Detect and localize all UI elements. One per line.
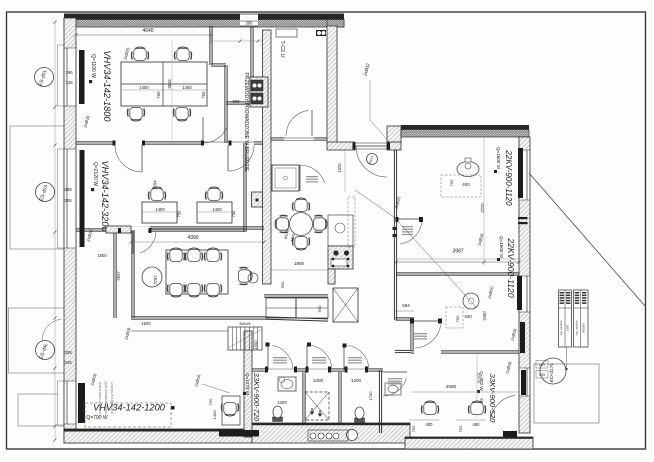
svg-text:T-C2.U: T-C2.U — [279, 40, 285, 57]
svg-text:800: 800 — [233, 99, 241, 104]
svg-text:D85: D85 — [539, 373, 545, 377]
svg-text:1000: 1000 — [313, 378, 324, 383]
svg-text:750: 750 — [201, 91, 206, 99]
svg-text:4580: 4580 — [446, 384, 457, 390]
svg-text:750: 750 — [177, 210, 182, 218]
svg-text:Q=1190 W: Q=1190 W — [90, 54, 96, 78]
svg-text:1500: 1500 — [141, 321, 151, 326]
svg-text:VHV34-142-3200: VHV34-142-3200 — [100, 161, 110, 233]
svg-text:1985: 1985 — [566, 324, 570, 331]
svg-text:3615: 3615 — [167, 79, 172, 89]
svg-text:400: 400 — [473, 422, 481, 427]
svg-text:584: 584 — [402, 303, 410, 308]
svg-text:400: 400 — [462, 182, 470, 187]
svg-text:2797: 2797 — [153, 275, 158, 285]
svg-text:podejscie wody zimnej: podejscie wody zimnej — [98, 382, 102, 414]
svg-text:Q=790 W: Q=790 W — [86, 415, 108, 421]
svg-text:wg. zasilan: wg. zasilan — [574, 320, 578, 335]
svg-text:2947: 2947 — [116, 271, 121, 281]
svg-text:VHV34-142-1800: VHV34-142-1800 — [102, 51, 112, 123]
svg-text:2794: 2794 — [153, 180, 158, 190]
svg-text:1800: 1800 — [294, 261, 305, 266]
svg-text:1320: 1320 — [337, 163, 342, 173]
svg-text:22KV-900-1120: 22KV-900-1120 — [504, 149, 513, 206]
svg-text:1400: 1400 — [155, 207, 165, 212]
svg-text:2490: 2490 — [482, 311, 487, 321]
svg-text:4390: 4390 — [187, 235, 198, 241]
svg-text:PRZEWODY PROWADZONE W BRUZDZIE: PRZEWODY PROWADZONE W BRUZDZIE — [243, 73, 249, 173]
svg-text:33KV-900-720: 33KV-900-720 — [252, 373, 261, 422]
svg-text:650: 650 — [317, 305, 322, 312]
svg-text:wg. zasilan: wg. zasilan — [559, 320, 563, 335]
svg-text:1400: 1400 — [212, 410, 217, 420]
svg-text:338: 338 — [64, 350, 72, 355]
svg-text:1200: 1200 — [351, 378, 362, 383]
svg-text:750: 750 — [156, 91, 161, 99]
svg-text:33KV-900-520: 33KV-900-520 — [488, 374, 497, 423]
svg-text:D80: D80 — [539, 363, 545, 367]
svg-text:390: 390 — [246, 21, 254, 26]
svg-text:750: 750 — [458, 425, 463, 432]
svg-text:750: 750 — [455, 315, 460, 322]
svg-text:750: 750 — [411, 425, 416, 432]
svg-text:odplyw kanalizacji dn50: odplyw kanalizacji dn50 — [104, 381, 108, 415]
svg-text:1300: 1300 — [277, 400, 287, 405]
svg-text:1400: 1400 — [139, 85, 149, 90]
svg-text:5x8x26: 5x8x26 — [240, 322, 251, 326]
svg-text:400: 400 — [426, 422, 434, 427]
svg-text:900000: 900000 — [582, 323, 586, 333]
svg-text:22KV-900-1120: 22KV-900-1120 — [506, 237, 516, 297]
svg-text:338: 338 — [64, 187, 72, 192]
svg-text:750: 750 — [449, 179, 454, 186]
svg-text:Q=1600 W: Q=1600 W — [496, 147, 501, 170]
svg-text:750: 750 — [208, 398, 213, 405]
svg-text:400: 400 — [464, 314, 472, 319]
svg-text:EO-d17L: EO-d17L — [549, 363, 555, 383]
svg-text:196: 196 — [65, 70, 73, 75]
svg-text:Q=1600 W: Q=1600 W — [499, 236, 504, 259]
svg-text:345: 345 — [64, 198, 72, 203]
svg-text:1700: 1700 — [368, 391, 373, 401]
svg-text:650: 650 — [280, 281, 285, 288]
svg-text:1400: 1400 — [182, 85, 192, 90]
svg-text:750: 750 — [231, 210, 236, 218]
svg-text:4640: 4640 — [142, 28, 153, 34]
svg-text:przewody w posadzce: przewody w posadzce — [110, 382, 114, 414]
svg-text:Q=2120 W: Q=2120 W — [92, 162, 98, 186]
svg-text:3987: 3987 — [452, 249, 463, 255]
svg-text:345: 345 — [64, 360, 72, 365]
svg-text:4220: 4220 — [480, 203, 485, 213]
svg-text:1500: 1500 — [253, 340, 258, 350]
svg-text:1500: 1500 — [97, 253, 107, 258]
svg-text:345: 345 — [65, 80, 73, 85]
svg-text:Q=902: Q=902 — [477, 373, 481, 383]
svg-text:1400: 1400 — [212, 207, 222, 212]
